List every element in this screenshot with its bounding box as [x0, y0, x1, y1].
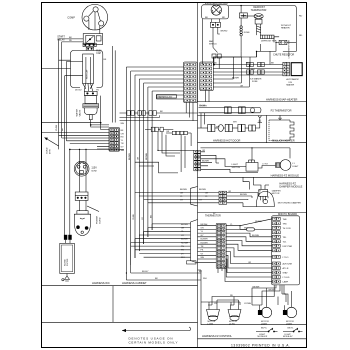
svg-text:DEFROST HTR: DEFROST HTR [261, 41, 277, 43]
svg-text:NOISE: NOISE [64, 259, 66, 266]
svg-text:LT FZ: LT FZ [262, 164, 268, 166]
svg-text:OR: OR [121, 133, 125, 135]
svg-text:TH CON: TH CON [283, 228, 291, 230]
divider evap-heater bottom [198, 101, 307, 103]
svg-text:RD: RD [222, 17, 226, 19]
divider wc/cabinet vertical [112, 286, 114, 323]
cord receptacle circle [70, 149, 124, 192]
svg-text:BK/WH: BK/WH [232, 77, 239, 79]
lamp feed wires [198, 270, 289, 325]
main pass-through connector left half [184, 62, 198, 102]
svg-text:DAMPER MODULE: DAMPER MODULE [279, 185, 302, 189]
noise suppressor [60, 240, 75, 274]
svg-text:WH: WH [121, 150, 125, 152]
svg-text:HARNESS-FZ MODULE: HARNESS-FZ MODULE [271, 173, 300, 177]
svg-text:BK/RD: BK/RD [221, 30, 228, 32]
svg-text:LT FR: LT FR [208, 323, 214, 325]
svg-text:BK/WH: BK/WH [199, 189, 206, 191]
upper passthrough wedge [183, 187, 198, 207]
left vertical rails [59, 39, 70, 235]
certain-models diagonal arrow [45, 138, 59, 147]
icemaker connector [283, 62, 290, 76]
svg-text:DAMPER: DAMPER [272, 190, 281, 193]
svg-text:AUTOMATIC: AUTOMATIC [286, 78, 299, 81]
svg-text:CERTAIN MODELS ONLY: CERTAIN MODELS ONLY [129, 341, 178, 345]
run cap outline loop [71, 50, 103, 88]
svg-text:MID PC BOARD: MID PC BOARD [278, 212, 297, 216]
svg-text:LIGHT: LIGHT [286, 323, 293, 325]
svg-text:MODE-FZ: MODE-FZ [283, 336, 293, 338]
damper feed wires [243, 177, 269, 189]
svg-text:WH: WH [121, 123, 125, 125]
bundle branch lower [126, 224, 222, 280]
svg-text:HARNESS-EVAP-HEATER: HARNESS-EVAP-HEATER [266, 97, 297, 101]
border frame [42, 3, 307, 348]
svg-text:13039602 PRINTED IN U.S.A.: 13039602 PRINTED IN U.S.A. [231, 344, 290, 348]
svg-text:115V: 115V [91, 167, 97, 170]
svg-text:BU: BU [150, 215, 152, 218]
harness inline label box [156, 95, 176, 98]
evap housing drop wire [203, 19, 215, 65]
svg-text:THERMISTOR: THERMISTOR [205, 215, 221, 218]
svg-text:HARNESS-WC: HARNESS-WC [92, 281, 110, 285]
svg-text:RD: RD [230, 295, 234, 297]
svg-text:LT LED: LT LED [283, 277, 290, 279]
svg-text:COMP: COMP [67, 16, 75, 19]
svg-text:WH: WH [216, 126, 220, 128]
svg-text:LIGHT: LIGHT [232, 164, 239, 166]
divider light-mode strip top [201, 324, 307, 326]
lower passthrough wedge [191, 220, 198, 264]
bundle branch upper [135, 193, 183, 203]
svg-text:TN: TN [96, 90, 99, 92]
svg-text:YL/BK: YL/BK [133, 213, 135, 220]
divider fz-control bottom [198, 338, 307, 340]
svg-text:RUN CAP: RUN CAP [85, 69, 88, 79]
svg-text:BK/WH: BK/WH [129, 153, 131, 160]
svg-text:LT FR: LT FR [229, 323, 235, 325]
verticals from main connector bottom [186, 90, 209, 128]
svg-text:FUSE: FUSE [252, 81, 258, 83]
svg-text:HARNESS-FZ CONTROL: HARNESS-FZ CONTROL [202, 334, 233, 338]
svg-text:RD: RD [69, 40, 73, 42]
svg-text:MTR: MTR [50, 149, 52, 154]
svg-text:OR: OR [240, 85, 244, 87]
thermistor oval [240, 226, 272, 231]
inline connector row B [166, 131, 191, 134]
svg-text:YL/BK: YL/BK [56, 124, 58, 131]
relay terminal strip [83, 43, 96, 50]
divider hotdoor bottom [198, 142, 307, 144]
fz control wires [225, 219, 272, 282]
evap fan housing [202, 5, 229, 19]
fan shield switch [212, 27, 221, 62]
svg-text:BU/GY: BU/GY [142, 271, 149, 273]
svg-text:BU/WH: BU/WH [252, 235, 259, 237]
svg-text:LT DO: LT DO [283, 257, 289, 259]
svg-text:RD: RD [121, 137, 125, 139]
mid verticals below inline connectors [135, 132, 194, 173]
svg-text:HEATER: HEATER [281, 26, 290, 29]
icemaker inline connectors [247, 62, 265, 74]
hot door chain [198, 116, 263, 132]
svg-text:OR: OR [248, 262, 252, 264]
fz module connector [194, 150, 201, 171]
svg-text:RD: RD [299, 35, 303, 37]
svg-text:YL/GN: YL/GN [199, 105, 206, 107]
svg-text:OR: OR [205, 193, 209, 195]
motor light bulb 1 [258, 305, 271, 317]
svg-text:LAMP: LAMP [283, 281, 289, 284]
svg-text:A-HOUSE: A-HOUSE [283, 263, 293, 266]
svg-text:LIGHT: LIGHT [261, 323, 268, 325]
svg-text:MODE-FR: MODE-FR [258, 336, 268, 338]
extra fz control wires [209, 285, 292, 307]
svg-text:BK/WH: BK/WH [240, 194, 247, 196]
compressor COMP [82, 4, 108, 33]
svg-text:VALVE: VALVE [78, 109, 81, 116]
svg-text:BK/WH: BK/WH [202, 160, 209, 162]
mullion heater element [269, 115, 294, 140]
svg-text:AT LIF: AT LIF [283, 267, 290, 270]
svg-text:FILTER: FILTER [67, 258, 69, 266]
svg-text:RD: RD [299, 16, 303, 18]
icemaker wires [213, 51, 283, 75]
legend: denotes-usage arrow [122, 327, 191, 332]
start relay box [83, 34, 103, 45]
svg-text:MOTORIZED DAMPER: MOTORIZED DAMPER [278, 201, 301, 204]
divider fz-module bottom [198, 176, 307, 178]
wc connector out labels [121, 130, 125, 152]
svg-text:THD: THD [283, 223, 288, 225]
svg-text:P2 THERMISTOR: P2 THERMISTOR [271, 109, 292, 113]
wires from right-half connector to evap [213, 57, 249, 87]
motor lt fr 1 [207, 306, 220, 321]
mid pc board cells [272, 217, 280, 283]
mid pc board pin labels [283, 219, 293, 284]
svg-text:OR: OR [228, 191, 232, 193]
inline connector pair A [145, 127, 173, 131]
defrost terminator disc [241, 14, 263, 35]
svg-text:THE: THE [283, 219, 288, 221]
svg-text:RD: RD [214, 63, 218, 65]
harness-wc connector block [109, 128, 120, 152]
ground symbol wc [62, 274, 70, 282]
svg-text:OR: OR [138, 156, 140, 160]
wires compressor to left rails [42, 39, 83, 76]
damper motor dome [256, 189, 274, 206]
svg-text:CHUTE RESISTOR: CHUTE RESISTOR [289, 40, 291, 59]
svg-text:RD/WH: RD/WH [146, 152, 148, 160]
svg-text:MOTOR: MOTOR [272, 193, 280, 195]
inline connectors row wc [120, 111, 198, 121]
svg-text:GY/WH: GY/WH [244, 303, 252, 305]
lower passthrough labels [181, 224, 208, 259]
divider legend horizontal [42, 321, 198, 323]
svg-text:STAY: STAY [283, 272, 289, 275]
svg-text:60HZ: 60HZ [91, 170, 97, 172]
svg-text:WH: WH [233, 122, 237, 124]
svg-text:POWER: POWER [97, 215, 99, 224]
fz light bulb [276, 160, 291, 171]
svg-text:MAKER: MAKER [286, 83, 294, 86]
divider thermistor bottom [198, 114, 307, 116]
section labels [92, 97, 303, 338]
svg-text:FUSE: FUSE [244, 32, 250, 34]
svg-text:FAN: FAN [209, 40, 214, 43]
main pass-through connector right half [200, 62, 214, 90]
bundle rotated labels [129, 152, 153, 220]
svg-text:TN: TN [121, 143, 124, 145]
wires valve to wc connector [42, 46, 115, 149]
chute door heater box [276, 40, 296, 51]
mid pc board housing [271, 216, 299, 285]
power cord callout [87, 206, 99, 212]
border wire from left [42, 122, 101, 124]
cord terminal block [74, 192, 90, 236]
svg-text:SWITCH: SWITCH [232, 167, 241, 169]
svg-text:BK/YL: BK/YL [288, 328, 295, 330]
cabinet bundle vertical wires [126, 67, 152, 280]
svg-text:DK BU: DK BU [75, 90, 82, 92]
evap fan connector [210, 19, 220, 27]
automatic ice maker [291, 63, 302, 76]
svg-text:OR: OR [180, 193, 184, 195]
cord end terminals [64, 235, 72, 240]
svg-text:WATER: WATER [76, 108, 79, 116]
damper wires [198, 193, 259, 207]
passthrough to grid rows [198, 226, 217, 263]
svg-text:COND: COND [47, 147, 49, 154]
evap bottom wires [213, 44, 296, 69]
divider main vertical [197, 3, 199, 347]
svg-text:TERMINATOR: TERMINATOR [251, 9, 267, 12]
svg-text:OR: OR [202, 150, 206, 152]
water valve [83, 84, 99, 120]
divider hotdoor/mullion vertical [266, 115, 268, 142]
fz light wires [201, 148, 291, 173]
svg-text:CORD: CORD [99, 217, 101, 224]
divider damper bottom [198, 212, 307, 214]
bundle staircase into main connector [126, 67, 183, 99]
divider harness-wc horizontal [42, 285, 198, 287]
svg-text:WH: WH [244, 228, 248, 230]
svg-text:SHIELD: SHIELD [209, 43, 217, 45]
svg-text:BK/YL: BK/YL [261, 328, 268, 330]
svg-text:CAP: CAP [96, 52, 101, 55]
p2 thermistor strip [199, 107, 262, 114]
svg-text:WH: WH [203, 278, 207, 280]
motor light bulb 2 [283, 305, 296, 317]
svg-text:DSP PWR: DSP PWR [283, 246, 293, 248]
svg-text:RD/WH: RD/WH [255, 221, 263, 223]
defrost heater row [260, 35, 279, 42]
svg-text:CHUTE RESISTOR: CHUTE RESISTOR [273, 54, 294, 57]
thermostat box [239, 13, 247, 18]
svg-text:BK/WH: BK/WH [253, 287, 260, 289]
svg-text:BK/WH: BK/WH [180, 189, 187, 191]
svg-text:HARNESS-HOT DOOR: HARNESS-HOT DOOR [213, 139, 240, 143]
svg-text:BK/WH: BK/WH [269, 290, 276, 292]
motor lt fr 2 [228, 306, 241, 321]
light switch fz [246, 160, 258, 171]
upper passthrough labels [180, 189, 209, 201]
svg-text:HARNESS-WV: HARNESS-WV [157, 95, 172, 98]
damper connector [219, 191, 227, 204]
svg-text:LIGHT: LIGHT [292, 166, 299, 168]
svg-text:HARNESS-CABINET: HARNESS-CABINET [122, 281, 147, 285]
rail labels [47, 124, 65, 154]
scattered wire labels [69, 37, 262, 280]
top wire to right [228, 6, 296, 52]
fz thermistor grid [216, 223, 226, 268]
